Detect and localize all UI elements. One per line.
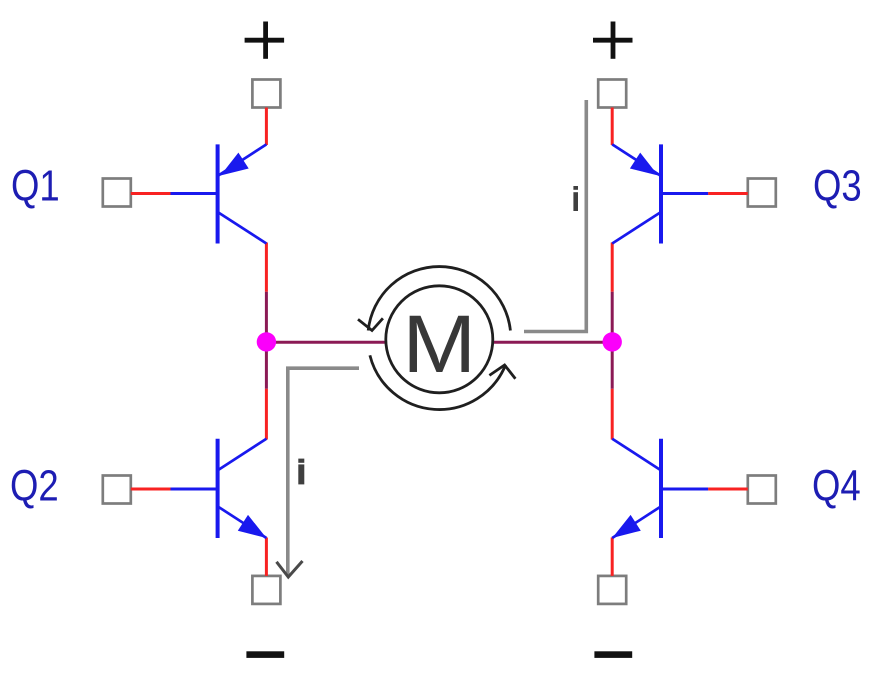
transistor Q3 (PNP, top-right) [612,144,708,243]
wire Q2 collector red segment [265,389,268,440]
node B junction dot [603,332,622,351]
motor rotation arrowhead right (chevron) [489,365,515,379]
plus symbol left (+) [245,22,285,59]
wire Q1 collector red segment [265,243,268,292]
wire Q2 base red segment [131,488,171,491]
wire node B upper purple segment [611,292,614,336]
terminal pad Q3 top (emitter supply) [598,80,626,108]
terminal pad Q4 base [748,476,776,504]
minus symbol right (-) [594,651,632,658]
wire Q4 emitter to bottom pad (red) [611,538,614,576]
current label i right [573,186,578,211]
terminal pad Q1 base [103,179,131,207]
current label i left [298,459,304,485]
terminal pad Q2 base [103,476,131,504]
wire node A upper purple segment [265,292,268,336]
wire Q4 collector red segment [611,389,614,440]
wire node A to motor left (purple) [266,341,387,344]
svg-text:Q4: Q4 [812,460,861,510]
wire node A lower purple segment [265,348,268,389]
motor M body circle [386,286,493,393]
motor rotation arrowhead left (chevron) [358,318,383,330]
motor rotation arc top [368,267,510,331]
node A junction dot [257,332,276,351]
current path arrow left (gray, downward) [288,368,359,576]
current path right (gray) [524,100,586,332]
wire node B to motor right (purple) [492,341,613,344]
svg-text:M: M [402,299,476,390]
wire Q2 emitter to bottom pad (red) [265,538,268,576]
transistor Q4 (NPN, bottom-right) [612,439,708,538]
minus symbol left (-) [246,651,284,658]
transistor Q2 (NPN, bottom-left) [171,439,267,538]
wire Q1 emitter to top pad (red) [265,108,268,146]
wire Q3 emitter to top pad (red) [611,108,614,146]
wire node B lower purple segment [611,348,614,389]
svg-text:Q3: Q3 [813,160,862,210]
svg-text:Q1: Q1 [11,160,60,210]
wire Q3 base red segment [708,192,748,195]
motor rotation arc bottom [370,355,506,409]
wire Q3 collector red segment [611,243,614,292]
transistor Q1 (PNP, top-left) [171,144,267,243]
terminal pad Q1 top (emitter supply) [252,80,280,108]
wire Q4 base red segment [708,488,748,491]
wire Q1 base red segment [131,192,171,195]
terminal pad Q2 bottom (emitter to minus) [252,576,280,604]
svg-text:Q2: Q2 [10,460,59,510]
current arrowhead left (chevron down) [277,561,303,577]
terminal pad Q3 base [748,179,776,207]
plus symbol right (+) [593,22,633,59]
terminal pad Q4 bottom (emitter to minus) [598,576,626,604]
